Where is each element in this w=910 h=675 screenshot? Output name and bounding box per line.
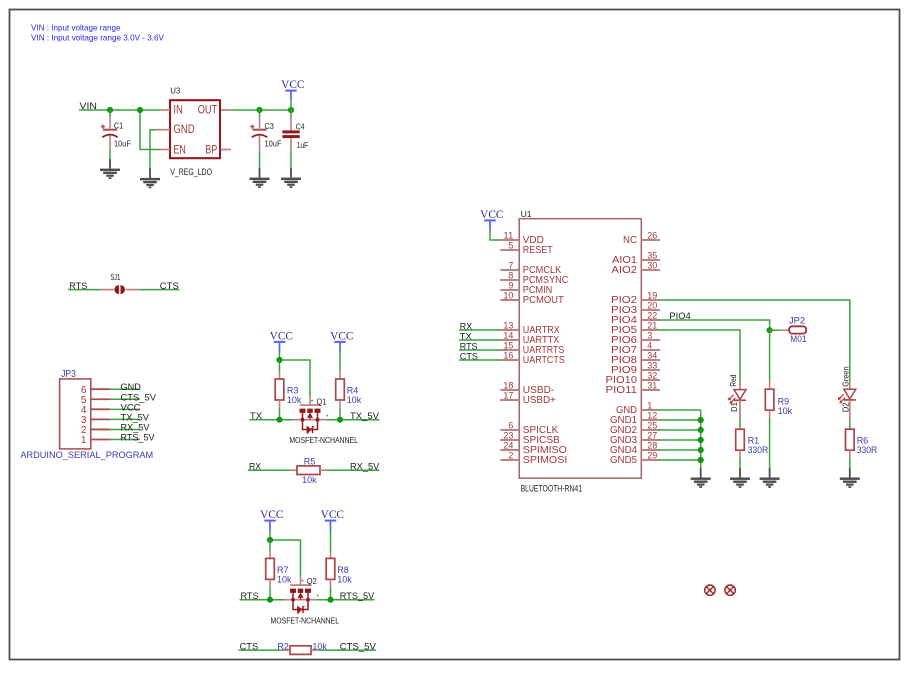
svg-text:10k: 10k xyxy=(337,575,352,586)
wire CTS_5V xyxy=(318,649,376,651)
svg-text:VIN : Input voltage range 3.0V: VIN : Input voltage range 3.0V - 3.6V xyxy=(31,32,164,42)
resistor R2 xyxy=(284,649,291,651)
svg-text:9: 9 xyxy=(508,280,513,290)
wire TX to UARTTX xyxy=(459,339,500,341)
pin 7 PCMCLK xyxy=(500,269,519,271)
svg-text:U1: U1 xyxy=(521,209,532,219)
junction VCC-R3 xyxy=(276,357,282,363)
svg-text:C4: C4 xyxy=(296,122,305,132)
svg-text:RESET: RESET xyxy=(523,245,553,256)
svg-text:27: 27 xyxy=(647,430,657,440)
pin 4 PIO7 xyxy=(641,349,660,351)
svg-text:35: 35 xyxy=(647,250,657,260)
junction TX-R3 xyxy=(276,417,282,423)
svg-text:M01: M01 xyxy=(790,334,806,345)
pin 13 UARTRX xyxy=(500,329,519,331)
pin 16 UARTCTS xyxy=(500,359,519,361)
svg-text:MOSFET-NCHANNEL: MOSFET-NCHANNEL xyxy=(289,435,358,445)
junction OUT-C3 xyxy=(256,107,262,113)
wire RX xyxy=(248,469,290,471)
svg-text:1: 1 xyxy=(81,435,87,446)
svg-text:JP3: JP3 xyxy=(61,369,76,380)
svg-text:CTS_5V: CTS_5V xyxy=(121,392,157,402)
svg-text:VIN : Input voltage range: VIN : Input voltage range xyxy=(31,23,121,33)
wire RTS row xyxy=(240,599,285,601)
svg-text:14: 14 xyxy=(503,330,513,340)
ic U1 BLUETOOTH-RN41 xyxy=(519,219,641,479)
junction TX_5V-R4 xyxy=(337,417,343,423)
pin 9 PCMIN xyxy=(500,289,519,291)
svg-text:330R: 330R xyxy=(857,445,878,456)
svg-text:JP2: JP2 xyxy=(789,316,805,327)
svg-text:OUT: OUT xyxy=(198,105,218,117)
svg-text:UARTCTS: UARTCTS xyxy=(523,355,565,366)
svg-text:7: 7 xyxy=(508,260,513,270)
svg-text:VCC: VCC xyxy=(270,329,293,342)
svg-text:ARDUINO_SERIAL_PROGRAM: ARDUINO_SERIAL_PROGRAM xyxy=(20,449,153,460)
label Q1 xyxy=(311,400,313,402)
pin 26 NC xyxy=(641,239,660,241)
pin 27 GND3 xyxy=(641,439,660,441)
svg-text:RX_5V: RX_5V xyxy=(350,460,380,471)
svg-text:30: 30 xyxy=(647,260,657,270)
svg-text:15: 15 xyxy=(503,340,513,350)
wire SJ1 to CTS xyxy=(140,289,180,291)
junction GND bus xyxy=(698,417,704,423)
svg-text:12: 12 xyxy=(647,410,657,420)
svg-text:CTS_5V: CTS_5V xyxy=(340,640,377,651)
wire EN branch xyxy=(140,110,160,150)
wire VCC junction to gate Q1 xyxy=(280,360,311,396)
pin 1 GND xyxy=(641,409,660,411)
pin 35 AIO1 xyxy=(641,259,660,261)
pin 15 UARTRTS xyxy=(500,349,519,351)
jumper JP2 xyxy=(770,329,780,331)
svg-text:D1: D1 xyxy=(730,402,739,412)
resistor R6 xyxy=(849,421,851,430)
svg-text:GND: GND xyxy=(121,382,142,392)
svg-text:RTS_5V: RTS_5V xyxy=(121,433,156,443)
svg-text:R5: R5 xyxy=(304,457,316,468)
no-connect symbol 1 xyxy=(705,585,715,595)
svg-text:GND: GND xyxy=(173,124,194,136)
svg-text:U3: U3 xyxy=(170,86,180,96)
svg-text:Q1: Q1 xyxy=(317,396,327,406)
ground C1 xyxy=(100,159,120,179)
pin 10 PCMOUT xyxy=(500,299,519,301)
resistor R1 xyxy=(739,421,741,430)
pin 14 UARTTX xyxy=(500,339,519,341)
svg-text:31: 31 xyxy=(647,380,657,390)
junction GND bus xyxy=(698,427,704,433)
ground R6 xyxy=(840,468,860,488)
solder jumper SJ1 xyxy=(100,289,114,291)
svg-text:6: 6 xyxy=(508,420,513,430)
junction GND bus xyxy=(698,447,704,453)
svg-text:1: 1 xyxy=(647,400,652,410)
svg-text:20: 20 xyxy=(647,300,657,310)
wire TX row xyxy=(250,419,294,421)
svg-text:10k: 10k xyxy=(287,395,302,406)
label Q2 xyxy=(302,580,304,582)
svg-text:BLUETOOTH-RN41: BLUETOOTH-RN41 xyxy=(521,484,582,494)
svg-text:23: 23 xyxy=(503,430,513,440)
led D2 xyxy=(849,383,851,390)
ground R9 xyxy=(760,468,780,488)
svg-text:PIO11: PIO11 xyxy=(606,385,638,396)
svg-text:Red: Red xyxy=(729,374,738,386)
ground U3.GND xyxy=(140,168,160,188)
junction VIN-C1 xyxy=(107,107,113,113)
pin BP xyxy=(221,149,231,151)
svg-text:VCC: VCC xyxy=(121,402,141,412)
wire CTS to UARTCTS xyxy=(459,359,500,361)
pin OUT xyxy=(221,109,231,111)
svg-text:33: 33 xyxy=(647,360,657,370)
ground R1 xyxy=(730,468,750,488)
svg-text:VCC: VCC xyxy=(260,508,283,521)
svg-text:R2: R2 xyxy=(277,641,289,652)
svg-text:AIO2: AIO2 xyxy=(612,265,638,276)
svg-text:VCC: VCC xyxy=(321,508,344,521)
wire RX to UARTRX xyxy=(459,329,500,331)
svg-text:5: 5 xyxy=(508,240,513,250)
svg-text:C1: C1 xyxy=(114,120,124,130)
pin 32 PIO10 xyxy=(641,379,660,381)
wire VIN to U3.IN xyxy=(79,109,160,111)
pin 20 PIO3 xyxy=(641,309,660,311)
svg-text:PCMOUT: PCMOUT xyxy=(523,295,564,306)
svg-text:TX_5V: TX_5V xyxy=(121,412,150,422)
pin 11 VDD xyxy=(500,239,519,241)
svg-text:V_REG_LDO: V_REG_LDO xyxy=(170,167,212,177)
svg-text:8: 8 xyxy=(508,270,513,280)
svg-text:VCC: VCC xyxy=(330,329,353,342)
svg-text:28: 28 xyxy=(647,440,657,450)
connector JP3 xyxy=(60,379,91,449)
pin 34 PIO8 xyxy=(641,359,660,361)
svg-text:10k: 10k xyxy=(778,406,793,417)
svg-text:EN: EN xyxy=(173,144,185,156)
pin 6 SPICLK xyxy=(500,429,519,431)
svg-text:29: 29 xyxy=(647,450,657,460)
svg-text:GND5: GND5 xyxy=(610,455,637,466)
svg-text:TX_5V: TX_5V xyxy=(350,410,380,421)
svg-text:330R: 330R xyxy=(748,445,769,456)
pin 22 PIO4 xyxy=(641,319,660,321)
svg-text:MOSFET-NCHANNEL: MOSFET-NCHANNEL xyxy=(271,615,340,625)
ground C3 xyxy=(250,168,270,188)
svg-text:Green: Green xyxy=(841,366,850,387)
wire OUT to VCC xyxy=(231,109,291,111)
resistor R4 xyxy=(339,371,341,379)
wire GND branch xyxy=(150,130,157,169)
transistor Q2 xyxy=(290,584,311,586)
capacitor C1 xyxy=(109,110,111,117)
wire GND bus xyxy=(659,409,700,411)
svg-text:RX_5V: RX_5V xyxy=(121,422,151,432)
wire RTS to SJ1 xyxy=(68,289,100,291)
pin 21 PIO5 xyxy=(641,329,660,331)
svg-text:4: 4 xyxy=(647,340,652,350)
pin 33 PIO9 xyxy=(641,369,660,371)
svg-text:22: 22 xyxy=(647,310,657,320)
svg-text:Q2: Q2 xyxy=(307,576,317,586)
svg-text:NC: NC xyxy=(623,235,637,246)
ground C4 xyxy=(281,168,301,188)
wire PIO5 to D1 xyxy=(659,330,740,383)
pin 28 GND4 xyxy=(641,449,660,451)
pin 8 PCMSYNC xyxy=(500,279,519,281)
junction PIO4 node xyxy=(767,327,773,333)
pin 29 GND5 xyxy=(641,459,660,461)
svg-text:SPIMOSI: SPIMOSI xyxy=(523,455,568,466)
pin 17 USBD+ xyxy=(500,399,519,401)
junction VCC-R7 xyxy=(267,537,273,543)
svg-text:RTS_5V: RTS_5V xyxy=(340,590,375,601)
wire RX_5V xyxy=(327,469,379,471)
svg-text:BP: BP xyxy=(205,144,217,156)
pin 3 PIO6 xyxy=(641,339,660,341)
resistor R3 xyxy=(279,360,281,371)
junction RTS_5V-R8 xyxy=(327,597,333,603)
svg-text:11: 11 xyxy=(503,230,513,240)
svg-text:10uF: 10uF xyxy=(265,138,282,148)
pin 25 GND2 xyxy=(641,429,660,431)
junction GND bus xyxy=(698,457,704,463)
junction GND bus xyxy=(698,437,704,443)
no-connect symbol 2 xyxy=(725,585,735,595)
wire VCC junction to gate Q2 xyxy=(270,540,301,576)
pin 2 SPIMOSI xyxy=(500,459,519,461)
pin 5 RESET xyxy=(500,249,519,251)
svg-text:CTS: CTS xyxy=(160,280,179,291)
wire PIO2 to D2 xyxy=(659,300,849,383)
pin 31 PIO11 xyxy=(641,389,660,391)
svg-text:2: 2 xyxy=(508,450,513,460)
svg-text:IN: IN xyxy=(173,105,183,117)
svg-text:26: 26 xyxy=(647,230,657,240)
svg-text:24: 24 xyxy=(503,440,513,450)
junction VCC-C4 xyxy=(288,107,294,113)
svg-text:10k: 10k xyxy=(347,395,362,406)
svg-text:13: 13 xyxy=(503,320,513,330)
pin 24 SPIMISO xyxy=(500,449,519,451)
capacitor C3 xyxy=(259,110,261,117)
junction VIN-EN xyxy=(137,107,143,113)
pin 18 USBD- xyxy=(500,389,519,391)
pin GND xyxy=(157,129,171,131)
resistor R9 xyxy=(769,330,771,381)
resistor R5 xyxy=(290,469,298,471)
svg-text:18: 18 xyxy=(503,380,513,390)
junction RTS-R7 xyxy=(267,597,273,603)
wire RTS to UARTRTS xyxy=(459,349,500,351)
svg-text:19: 19 xyxy=(647,290,657,300)
svg-text:SJ1: SJ1 xyxy=(110,273,120,282)
svg-text:17: 17 xyxy=(503,390,513,400)
svg-text:10k: 10k xyxy=(312,641,327,652)
resistor R7 xyxy=(269,540,271,551)
svg-text:VCC: VCC xyxy=(480,208,503,221)
pin 12 GND1 xyxy=(641,419,660,421)
voltage regulator U3 xyxy=(170,100,220,158)
pin 23 SPICSB xyxy=(500,439,519,441)
pin 30 AIO2 xyxy=(641,269,660,271)
capacitor C4 xyxy=(290,110,292,118)
wire PIO4 to JP2/R9 xyxy=(659,320,769,330)
svg-text:10: 10 xyxy=(503,290,513,300)
svg-text:32: 32 xyxy=(647,370,657,380)
svg-text:34: 34 xyxy=(647,350,657,360)
svg-text:16: 16 xyxy=(503,350,513,360)
svg-text:1uF: 1uF xyxy=(297,140,309,150)
svg-text:21: 21 xyxy=(647,320,657,330)
svg-text:10k: 10k xyxy=(302,475,317,486)
svg-text:USBD+: USBD+ xyxy=(523,395,556,406)
resistor R8 xyxy=(330,551,332,558)
svg-text:10uF: 10uF xyxy=(114,138,131,148)
led D1 xyxy=(739,383,741,390)
ground GND bus xyxy=(691,468,711,488)
wire CTS xyxy=(239,649,284,651)
svg-text:3: 3 xyxy=(647,330,652,340)
pin 19 PIO2 xyxy=(641,299,660,301)
svg-text:VCC: VCC xyxy=(281,78,304,91)
svg-text:C3: C3 xyxy=(265,121,275,131)
svg-text:D2: D2 xyxy=(841,402,850,412)
transistor Q1 xyxy=(300,404,321,406)
pin EN xyxy=(160,149,170,151)
pin IN xyxy=(160,109,170,111)
svg-text:25: 25 xyxy=(647,420,657,430)
svg-text:10k: 10k xyxy=(277,575,292,586)
